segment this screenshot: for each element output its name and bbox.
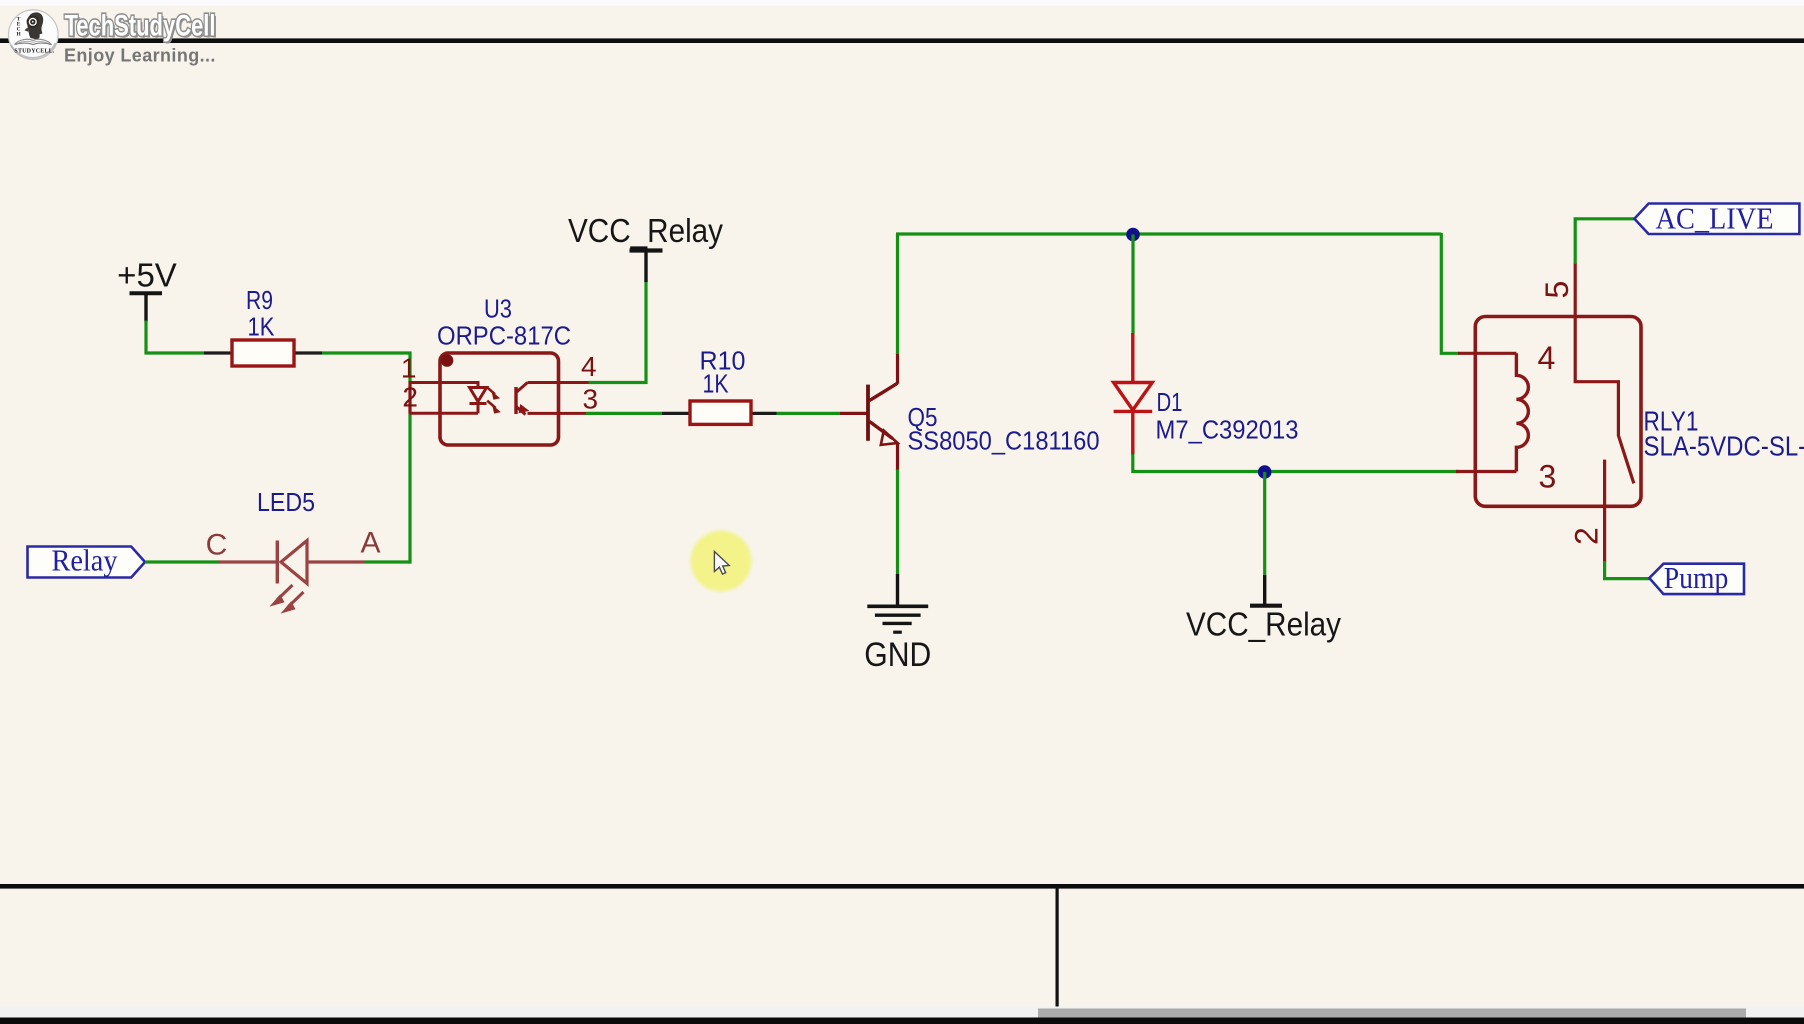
svg-text:5: 5 xyxy=(1539,281,1575,299)
svg-text:U3: U3 xyxy=(484,294,512,324)
wire U3 pin1 to pin2 vertical xyxy=(408,381,411,414)
wire R10 to Q5 base lead xyxy=(840,412,867,415)
wire relay pin2 to Pump xyxy=(1605,561,1650,579)
net label Pump flag xyxy=(1649,560,1744,595)
wire U3 pin4 to VCC_Relay xyxy=(589,281,647,383)
net label Relay flag xyxy=(28,543,146,578)
wire top rail xyxy=(896,232,1441,235)
svg-text:STUDYCELL.: STUDYCELL. xyxy=(14,49,54,55)
svg-text:Pump: Pump xyxy=(1664,560,1729,595)
svg-text:1K: 1K xyxy=(703,369,730,399)
wire D1 to bottom rail xyxy=(1133,454,1459,472)
resistor R10 xyxy=(662,346,777,425)
LED LED5 xyxy=(206,487,381,612)
junction bottom node xyxy=(1258,465,1272,479)
svg-text:SS8050_C181160: SS8050_C181160 xyxy=(908,426,1100,456)
wire R10 to Q5 base xyxy=(777,412,841,415)
power VCC_Relay bottom xyxy=(1186,575,1341,643)
wire Q5 collector up xyxy=(896,234,899,354)
ground GND xyxy=(864,574,931,674)
svg-text:4: 4 xyxy=(581,351,597,382)
resistor R9 xyxy=(204,285,322,366)
wire U3 pin2 down to LED5 xyxy=(408,414,411,564)
svg-text:3: 3 xyxy=(583,384,599,415)
svg-text:VCC_Relay: VCC_Relay xyxy=(568,212,723,249)
wire U3 pin3 to R10 xyxy=(586,412,662,415)
net label AC_LIVE flag xyxy=(1634,201,1799,236)
power VCC_Relay top xyxy=(568,212,723,282)
wire top rail down to relay coil xyxy=(1441,233,1459,353)
svg-text:TechStudyCell: TechStudyCell xyxy=(65,10,216,43)
wire junction to VCC_Relay bottom xyxy=(1263,472,1266,576)
wire AC LIVE to relay pin5 xyxy=(1575,219,1634,264)
svg-text:1: 1 xyxy=(401,353,417,384)
svg-text:M7_C392013: M7_C392013 xyxy=(1156,415,1299,445)
wire LED5 anode up to U3 xyxy=(365,560,411,563)
channel logo badge xyxy=(9,10,59,60)
wire Relay flag to LED5 xyxy=(145,560,219,563)
svg-text:GND: GND xyxy=(864,636,931,674)
optocoupler U3 xyxy=(401,294,598,446)
svg-text:4: 4 xyxy=(1538,340,1556,376)
ground wire Q5 emitter xyxy=(896,470,899,576)
svg-text:VCC_Relay: VCC_Relay xyxy=(1186,606,1341,643)
svg-text:2: 2 xyxy=(402,382,418,413)
svg-text:D1: D1 xyxy=(1157,387,1183,417)
svg-text:LED5: LED5 xyxy=(257,487,315,517)
svg-text:R9: R9 xyxy=(246,285,273,315)
wire R9 to U3 xyxy=(322,353,410,382)
svg-text:2: 2 xyxy=(1569,527,1605,545)
svg-text:3: 3 xyxy=(1539,459,1557,495)
cursor highlight xyxy=(691,531,752,592)
wire top rail to D1 xyxy=(1131,235,1134,335)
svg-text:Enjoy Learning...: Enjoy Learning... xyxy=(64,46,216,66)
diode D1 xyxy=(1114,333,1299,455)
svg-text:1K: 1K xyxy=(248,312,276,342)
power +5V xyxy=(117,257,177,322)
relay RLY1 xyxy=(1458,263,1804,562)
svg-text:AC_LIVE: AC_LIVE xyxy=(1656,201,1774,236)
svg-text:Relay: Relay xyxy=(52,543,118,578)
channel title TechStudyCell xyxy=(65,10,218,45)
wire +5V to R9 xyxy=(146,321,204,354)
junction top node xyxy=(1126,228,1140,242)
svg-text:C: C xyxy=(206,529,228,562)
svg-text:+5V: +5V xyxy=(117,257,177,294)
svg-text:A: A xyxy=(360,527,380,560)
svg-text:ORPC-817C: ORPC-817C xyxy=(437,321,571,351)
wire bottom rail to relay pin3 lead xyxy=(1456,470,1516,473)
transistor Q5 xyxy=(868,353,1100,471)
svg-text:SLA-5VDC-SL-C: SLA-5VDC-SL-C xyxy=(1644,431,1804,462)
